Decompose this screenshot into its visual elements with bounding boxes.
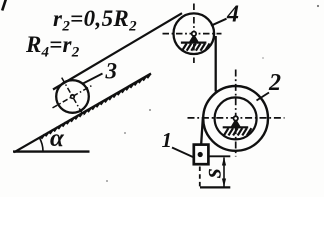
svg-text:4: 4 <box>226 1 239 27</box>
svg-text:r2=0,5R2: r2=0,5R2 <box>53 6 137 35</box>
svg-text:3: 3 <box>105 59 118 84</box>
svg-text:s: s <box>200 168 227 179</box>
svg-text:R4=r2: R4=r2 <box>25 32 80 61</box>
svg-text:α: α <box>50 125 65 152</box>
svg-text:1: 1 <box>162 128 173 152</box>
svg-text:2: 2 <box>268 70 281 96</box>
